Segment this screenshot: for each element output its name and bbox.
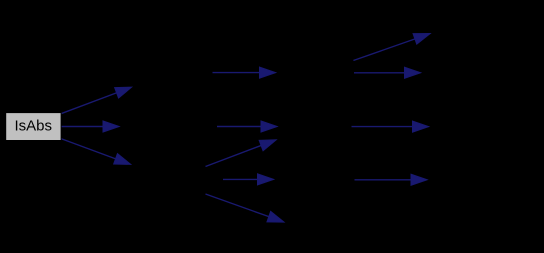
edge n2bot->n3b diag [206,140,277,167]
edge n2bot->n3c [223,174,274,185]
edge n2mid->n3b [217,121,278,132]
edge IsAbs->n2top [61,87,132,114]
edge n3a->n4b [354,67,421,78]
edge n3c->n4d [355,174,428,185]
edge n2bot->n3d diag [206,194,285,222]
edge IsAbs->n2bot [61,139,131,165]
edge n3b->n4c [352,121,430,132]
edge n2top->n3a [213,67,277,78]
svg-text:IsAbs: IsAbs [14,118,52,135]
node IsAbs [6,113,61,141]
edge n3a->n4a diag [353,33,430,60]
edge IsAbs->n2mid [61,121,120,132]
